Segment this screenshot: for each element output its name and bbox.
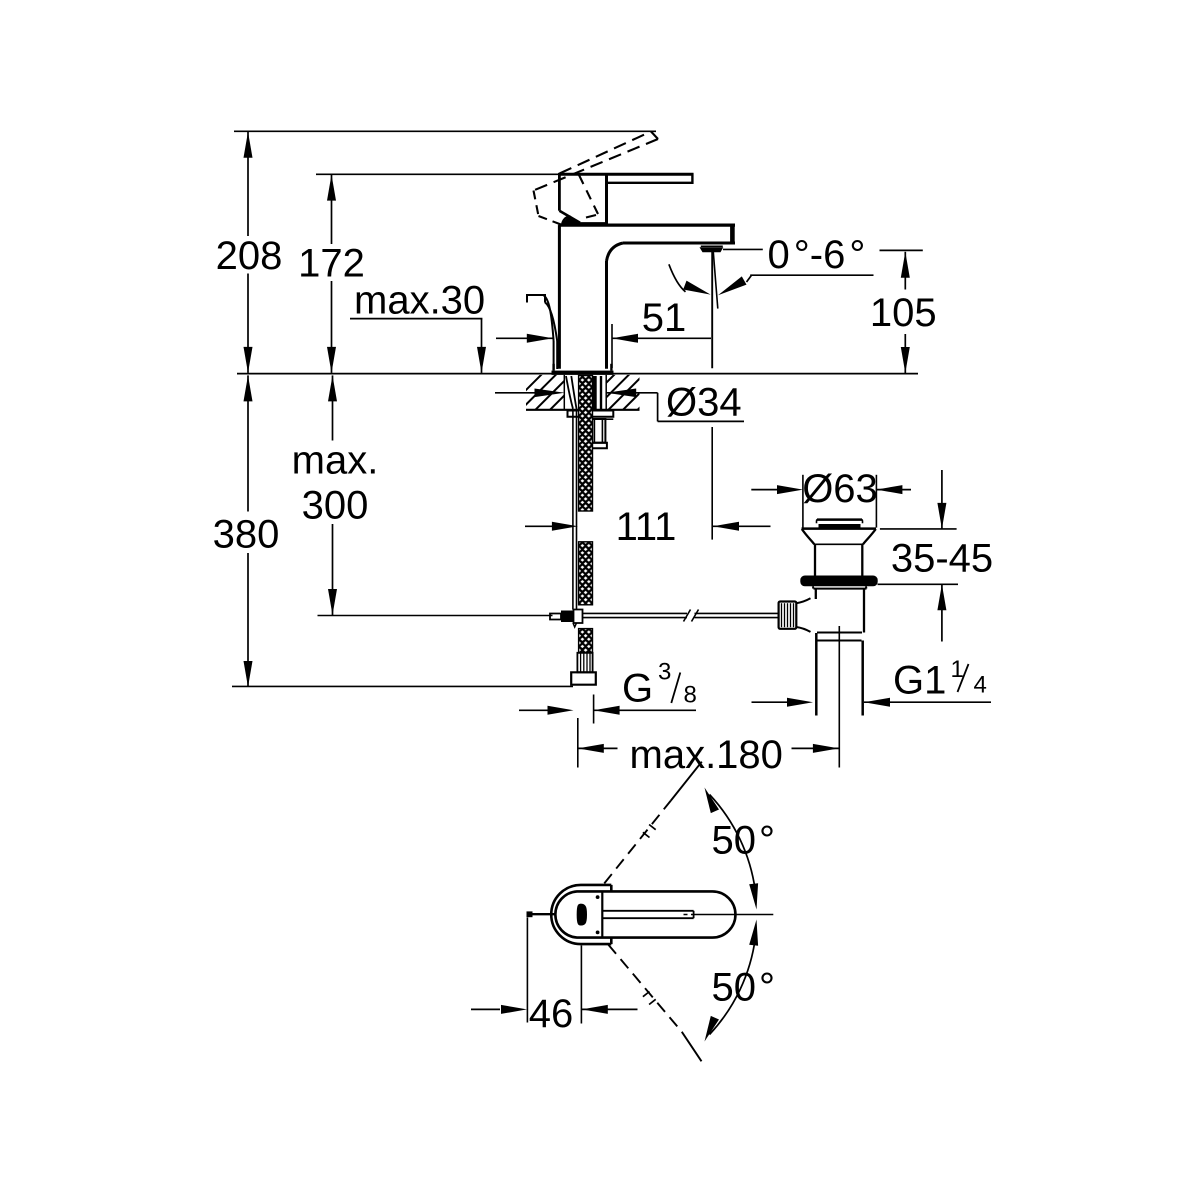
top view base plate outline [551,885,611,944]
rod clamp screw block [561,611,574,623]
braided hose segment 1 [579,376,593,512]
body right edge [605,261,608,369]
base plate bar [552,371,614,375]
svg-text:Ø34: Ø34 [666,381,742,425]
rod clamp body [574,610,583,624]
drain push cap rect [817,519,863,523]
dim 172 arrow up [327,175,336,201]
dim 51 right line [612,337,711,339]
top view spout slot [602,910,693,912]
horizontal rod left bottom [583,617,688,619]
drain rubber gasket [800,576,877,587]
dim Ø63 right line [876,489,911,491]
dim 380 line upper [247,375,249,511]
dashed raised lever lower edge [534,139,659,191]
upper 50 deg arc arrow bottom [749,883,758,909]
svg-text:3: 3 [658,659,671,686]
dim G1 1/4 left line [752,701,788,703]
hose nut G3/8 [571,672,596,684]
top view centerline [684,914,688,916]
washer under counter [568,411,614,417]
pop-up pull rod vertical lines [553,341,555,369]
svg-text:max.: max. [292,439,379,483]
dim 35-45 arrow down [937,503,946,529]
svg-text:35-45: 35-45 [891,537,993,581]
dim max.180 left line [578,747,618,749]
drain neck right [861,544,863,576]
dim 35-45 ext line lower [878,583,959,585]
svg-text:Ø63: Ø63 [802,467,878,511]
mounting nut body [591,419,605,443]
label 0-6 leader [750,274,873,276]
svg-text:111: 111 [616,505,677,549]
dim 46 right line [582,1008,638,1010]
svg-text:max.180: max.180 [630,733,783,777]
handle lever bar bottom edge [607,182,694,184]
max.30 arrow down [477,347,486,373]
max.300 bottom ref line [318,615,553,617]
dim 35-45 arrow up [937,584,946,610]
svg-text:300: 300 [302,484,369,528]
spout deck bottom edge [623,242,735,245]
braided hose segment 2 [579,542,593,605]
stream swivel arc [669,264,686,292]
dim Ø63 left line [751,489,778,491]
handle block right edge [605,174,608,224]
dim 208 arrow up [244,132,253,158]
dim Ø34 leader jog [657,393,659,422]
drain flange joint line [814,543,863,545]
dim 111 left arrow [552,522,578,531]
rod clamp left stub [550,614,561,620]
handle block bottom dark line [566,222,607,225]
top view screw dot upper [596,895,600,899]
handle swing lower solid end [682,1032,702,1062]
drain body below gasket [814,588,867,590]
lower 50 deg arc arrow bottom [705,1016,720,1042]
dim 380 arrow down [244,661,253,687]
ref line top of faucet body (172 datum) [316,173,558,175]
braided hose segment 3 [579,629,593,653]
dim 35-45 ext line upper [880,528,957,530]
dim 46 left line [471,1008,500,1010]
svg-text:208: 208 [216,234,283,278]
drain tailpipe left [815,633,818,716]
horizontal rod right bottom [695,617,779,619]
dim max.180 right arrow [813,744,839,753]
dim 46 left arrow [501,1005,527,1014]
svg-text:8: 8 [684,682,697,709]
dim max.180 left arrow [578,744,604,753]
dim Ø63 right arrow [876,485,902,494]
counter hole right edge [605,375,607,410]
top view lever slot blob [577,904,586,925]
dim max.180 right line [792,747,839,749]
svg-text:G: G [622,667,653,711]
svg-text:46: 46 [529,992,574,1036]
top view pull rod knob [527,911,533,917]
drain knob [779,602,797,629]
drain tailpipe right [861,641,864,716]
dim Ø34 left arrow [535,389,565,398]
dim Ø34 right arrow [606,389,636,398]
dim G1 1/4 left arrow [787,698,813,707]
drain body right wall [863,589,865,633]
drain push cap top [817,518,862,521]
dim 51 left line [496,337,553,339]
dim Ø34 left line [495,392,540,394]
dim max.300 line upper [332,375,334,440]
max.30 leader vertical [481,319,483,373]
dim 172 line upper [331,175,333,244]
spout inner corner radius [607,243,624,261]
drain flange left side [802,529,815,544]
svg-text:50°: 50° [712,819,776,863]
dim G3/8 left line [519,709,549,711]
stream swivel arc arrow [683,281,710,295]
horizontal rod right top [695,612,779,614]
upper 50 deg arc [710,795,756,892]
dim G1 1/4 right arrow [864,698,890,707]
counter hole left edge [563,375,565,410]
top view body capsule [555,891,735,937]
handle block lever slot wedge [562,215,580,223]
drain push cap lower slab [819,524,861,528]
rod break tick right [692,610,699,622]
dim 111 right arrow [713,522,739,531]
handle swing lower tick [643,992,650,997]
dashed raised lever tip [651,132,658,140]
dim 35-45 line lower [941,584,943,641]
dim 111 right line [713,525,771,527]
dim max.180 ext line left [577,718,579,768]
svg-text:51: 51 [642,296,687,340]
pop-up pull rod curve outer [544,295,554,341]
handle swing upper tick [643,832,650,837]
dim G3/8 left arrow [548,706,574,715]
handle block pivot arc [562,216,570,224]
svg-text:G1: G1 [893,659,946,703]
label 0-6 leader arrow [718,276,747,295]
dim 51 right arrow [612,334,638,343]
pop-up pull rod top cap [527,295,545,303]
rod break tick left [684,610,691,622]
svg-text:380: 380 [213,513,280,557]
top view screw dot lower [596,931,600,935]
max.30 underline leader [350,318,482,320]
mounting nut flange [590,443,607,448]
dim 105 line upper [904,252,906,290]
dim 105 arrow up [901,252,910,278]
handle swing upper dashed line [604,801,671,884]
dim Ø63 ext line right [875,475,877,528]
dim G3/8 right arrow [594,706,620,715]
aerator black trapezoid [700,247,724,252]
dim 105 line lower [904,334,906,373]
dim 172 line lower [331,281,333,373]
dim max.300 arrow down [328,589,337,615]
dim 380 line lower [247,553,249,687]
dim 105 arrow down [901,347,910,373]
handle swing lower dashed line [608,945,682,1032]
outlet level line [723,248,763,250]
top view pull rod [527,913,554,915]
aerator slab line [701,245,723,247]
drain body left wall [815,589,817,599]
horizontal rod left top [583,612,688,614]
handle block chamfer [559,211,580,223]
dim 46 right arrow [582,1005,608,1014]
dim 35-45 line upper [941,470,943,529]
ref line top of handle (208 datum) [234,130,656,132]
water stream vertical line [711,252,713,368]
counter top surface line [237,373,918,375]
drain neck left [814,544,816,576]
dim 46 ext line right [580,946,582,1024]
pull rod curve in hole A [566,376,573,409]
svg-text:4: 4 [974,672,987,699]
rod lower tip [573,623,577,627]
handle block left edge [558,173,561,211]
spout deck top edge [558,224,735,227]
drain knob boss top [796,598,810,603]
dim 208 line lower [247,274,249,373]
stream extension line lower [711,427,713,540]
handle lever bar end cap [691,173,693,184]
dim 380 arrow up [244,375,253,401]
dim 172 arrow down [327,347,336,373]
lower 50 deg arc [710,938,756,1035]
counter bottom line [526,409,640,411]
dashed rotated block edge inside [579,175,598,214]
lower 50 deg arc arrow top [749,920,758,946]
dim Ø63 left arrow [777,485,803,494]
svg-text:50°: 50° [712,966,776,1010]
dim 51 extension line [611,324,613,368]
spout right end edge [730,224,735,245]
drain knob boss bottom [796,627,810,632]
pop-up pull rod curve inner [545,302,557,341]
water stream tilted line [713,252,718,309]
dim Ø63 ext line left [802,475,804,528]
washer lip [596,418,614,420]
dim 105 top tick [880,249,923,251]
mounting nut inner lines [593,419,595,443]
drain flange top [802,527,877,530]
mounting stud dark bars [593,376,597,410]
dim 208 line upper [247,132,249,236]
dashed rotated block bottom edge [539,216,566,226]
dashed raised lever upper edge [560,132,652,174]
pop-up rod vertical lines [572,409,574,610]
handle lever bar top edge [558,173,693,176]
380 bottom ref line [232,685,573,687]
handle swing upper solid end [671,762,702,801]
dim Ø34 right line [606,392,657,394]
dim 46 ext line left [526,918,528,1023]
svg-text:0°-6°: 0°-6° [768,233,866,277]
dim 111 left line [525,525,552,527]
dim max.300 line lower [332,524,334,615]
body left edge [558,225,561,369]
dim G3/8 right line [594,709,696,711]
upper 50 deg arc arrow top [705,788,720,814]
drain centerline [838,626,840,768]
hose nipple [577,653,592,673]
drain flange right side [863,529,876,544]
svg-text:105: 105 [870,291,937,335]
pull rod curve in hole B [571,376,576,409]
drain slip joint line 2 [818,640,862,642]
dim max.300 arrow up [328,375,337,401]
label 0-6 leader kink [747,275,752,282]
dashed rotated block left edge [534,191,539,217]
dim 208 arrow down [244,347,253,373]
dim G3/8 ext line [593,695,595,724]
base plate left uprights [552,364,554,371]
dim 51 left arrow [527,334,553,343]
base plate right uprights [610,364,612,371]
top view cartridge chord [601,891,603,937]
svg-text:max.30: max.30 [354,279,485,323]
drain slip joint line 1 [817,632,862,634]
dashed rotated block bottom dash [586,215,596,218]
counter hatching [505,373,762,411]
dim G1 1/4 right line [864,701,991,703]
